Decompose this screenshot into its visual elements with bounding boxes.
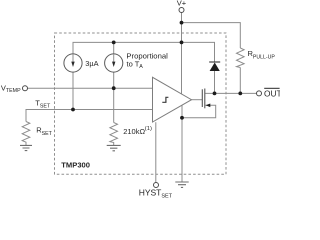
svg-text:OUT: OUT [264, 89, 280, 99]
comparator U1 [153, 77, 192, 122]
junction dots [180, 21, 184, 25]
resistor 210k [110, 123, 118, 146]
svg-text:V+: V+ [177, 0, 187, 8]
diode D1 [209, 61, 220, 63]
terminal OUT (active low) [257, 91, 262, 96]
wire diode anode to OUT node [214, 71, 216, 94]
wire proportional source down to 210k resistor [113, 72, 115, 123]
current source proportional to TA [105, 54, 123, 72]
wire comparator ground drop [181, 105, 183, 182]
resistor R_SET [22, 122, 30, 146]
svg-text:TMP300: TMP300 [61, 161, 90, 170]
terminal VTEMP [23, 86, 28, 91]
resistor R_PULL-UP [237, 48, 245, 68]
wire drain stub and OUT line [205, 92, 256, 94]
wire TSET to comparator - input [26, 110, 153, 122]
wire VTEMP to comparator + input [28, 87, 153, 89]
terminal V+ [179, 8, 184, 13]
svg-text:(1): (1) [145, 126, 152, 132]
current source 3uA [64, 54, 82, 72]
wire V+ to R_PULL-UP top [182, 23, 241, 48]
wire internal V+ rail [73, 42, 215, 62]
wire 3uA source down to TSET line [72, 72, 74, 110]
terminal HYST_SET [154, 183, 159, 188]
wire proportional source to rail [113, 42, 115, 54]
svg-text:3µA: 3µA [85, 59, 98, 68]
wire MOSFET source to ground line [182, 105, 216, 118]
wire V+ vertical into comparator top [181, 12, 183, 94]
dashed box TMP300 boundary [55, 33, 227, 174]
ground under R_SET [20, 145, 32, 150]
wire HYST_SET drop [155, 122, 157, 182]
transistor Q1 (open-drain NMOS) [201, 89, 203, 107]
ground comparator (below box) [175, 182, 188, 187]
ground under 210k [107, 145, 121, 150]
svg-text:210kΩ: 210kΩ [123, 127, 145, 136]
wire comparator output to gate [192, 99, 203, 101]
wire R_PULL-UP bottom to OUT node [239, 68, 241, 94]
hysteresis glyph [162, 97, 168, 102]
